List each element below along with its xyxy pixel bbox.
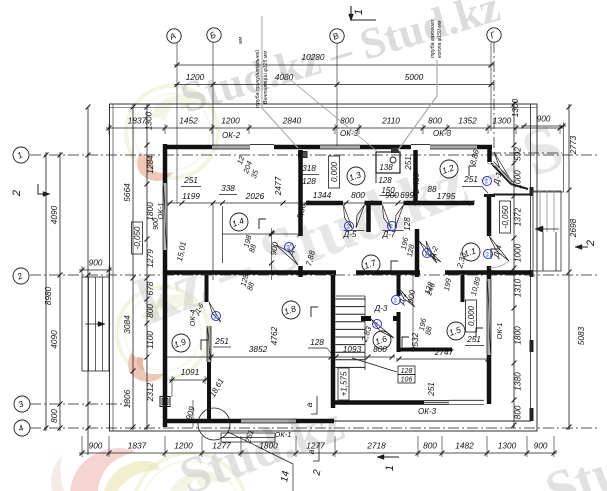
svg-text:251: 251 <box>183 175 198 185</box>
svg-text:251: 251 <box>404 156 413 170</box>
svg-text:1795: 1795 <box>437 191 456 201</box>
svg-text:ОК-1: ОК-1 <box>275 430 292 439</box>
svg-text:1100: 1100 <box>145 331 155 349</box>
svg-text:2: 2 <box>585 240 597 247</box>
svg-text:2477: 2477 <box>273 176 283 196</box>
svg-text:2026: 2026 <box>245 191 265 201</box>
svg-text:3852: 3852 <box>249 344 268 354</box>
svg-text:3084: 3084 <box>122 315 132 334</box>
svg-text:800: 800 <box>49 409 59 423</box>
svg-text:800: 800 <box>340 116 354 126</box>
svg-text:8980: 8980 <box>43 286 53 305</box>
svg-text:1277: 1277 <box>306 441 325 451</box>
svg-text:1000: 1000 <box>513 170 523 189</box>
svg-text:1344: 1344 <box>313 190 332 200</box>
svg-text:1300: 1300 <box>510 98 520 117</box>
svg-text:1800: 1800 <box>259 441 278 451</box>
svg-text:251: 251 <box>214 336 229 346</box>
svg-text:1091: 1091 <box>181 367 199 377</box>
svg-text:251: 251 <box>466 334 481 344</box>
svg-text:+1,575: +1,575 <box>339 371 348 396</box>
svg-text:251: 251 <box>463 174 478 184</box>
svg-text:900: 900 <box>534 441 548 451</box>
svg-text:ОК-1: ОК-1 <box>156 203 165 220</box>
svg-text:88: 88 <box>428 185 437 194</box>
svg-text:0,000: 0,000 <box>330 161 339 182</box>
svg-text:128: 128 <box>302 176 316 186</box>
svg-text:900: 900 <box>153 218 160 230</box>
svg-text:800: 800 <box>145 304 155 318</box>
svg-text:Д-5: Д-5 <box>343 230 357 239</box>
svg-text:1300: 1300 <box>498 441 517 451</box>
svg-text:а: а <box>304 402 314 407</box>
svg-text:труба газового: труба газового <box>430 20 436 58</box>
svg-text:4090: 4090 <box>49 330 59 349</box>
svg-text:1380: 1380 <box>513 372 523 391</box>
svg-text:2312: 2312 <box>145 382 155 402</box>
svg-text:1284: 1284 <box>145 155 155 174</box>
svg-text:128: 128 <box>401 368 413 375</box>
svg-text:251: 251 <box>426 382 436 397</box>
svg-text:1800: 1800 <box>145 202 155 221</box>
svg-text:ОК-1: ОК-1 <box>495 323 504 340</box>
svg-text:1800: 1800 <box>513 326 523 345</box>
svg-text:2718: 2718 <box>366 441 386 451</box>
svg-text:труба принудительной: труба принудительной <box>254 50 261 108</box>
svg-text:ОК-2: ОК-2 <box>222 131 241 140</box>
svg-text:1199: 1199 <box>182 191 200 201</box>
svg-text:2532: 2532 <box>410 332 420 352</box>
svg-text:5000: 5000 <box>405 72 424 82</box>
svg-text:0,000: 0,000 <box>467 305 476 326</box>
svg-text:Д-3: Д-3 <box>374 304 388 313</box>
svg-text:1837: 1837 <box>128 441 147 451</box>
svg-text:5083: 5083 <box>576 326 586 345</box>
svg-text:678: 678 <box>145 281 155 295</box>
svg-text:138: 138 <box>379 163 393 172</box>
svg-text:106: 106 <box>401 377 413 384</box>
svg-text:ОК-3: ОК-3 <box>433 129 452 138</box>
svg-text:Д-7: Д-7 <box>382 230 396 239</box>
svg-text:900: 900 <box>537 114 551 124</box>
svg-text:318: 318 <box>302 163 316 173</box>
svg-text:1452: 1452 <box>179 116 198 126</box>
svg-text:2110: 2110 <box>381 116 400 126</box>
svg-text:800: 800 <box>423 441 437 451</box>
svg-text:1806: 1806 <box>122 389 132 408</box>
svg-text:338: 338 <box>221 183 235 193</box>
svg-text:800: 800 <box>513 405 523 419</box>
svg-text:1300: 1300 <box>144 111 154 130</box>
svg-text:а: а <box>306 449 316 454</box>
svg-text:1300: 1300 <box>493 116 512 126</box>
svg-text:4090: 4090 <box>49 205 59 224</box>
svg-text:2840: 2840 <box>282 116 302 126</box>
svg-text:800: 800 <box>428 116 442 126</box>
svg-text:котла φ150 мм: котла φ150 мм <box>437 20 443 58</box>
svg-text:1482: 1482 <box>455 441 474 451</box>
svg-text:800: 800 <box>351 190 365 200</box>
svg-text:900: 900 <box>385 190 399 200</box>
svg-text:Вентиляции φ125 мм: Вентиляции φ125 мм <box>263 51 269 104</box>
svg-text:128: 128 <box>378 176 392 185</box>
svg-text:1200: 1200 <box>174 441 193 451</box>
svg-text:1000: 1000 <box>513 243 523 262</box>
svg-text:1372: 1372 <box>513 207 523 226</box>
svg-text:1: 1 <box>353 9 365 15</box>
svg-text:10280: 10280 <box>301 52 324 62</box>
svg-text:1: 1 <box>384 465 396 471</box>
svg-text:1200: 1200 <box>186 72 205 82</box>
svg-text:1310: 1310 <box>513 278 523 297</box>
svg-text:мм: мм <box>238 36 244 44</box>
svg-text:4762: 4762 <box>269 326 279 345</box>
svg-text:1352: 1352 <box>458 116 477 126</box>
svg-text:1093: 1093 <box>343 344 362 354</box>
svg-text:-0,050: -0,050 <box>501 205 510 228</box>
svg-text:2773: 2773 <box>568 135 578 155</box>
svg-text:2: 2 <box>11 190 23 197</box>
svg-text:ОК-3: ОК-3 <box>418 407 437 416</box>
svg-text:2698: 2698 <box>568 218 578 238</box>
svg-text:-0,050: -0,050 <box>133 226 142 249</box>
svg-text:900: 900 <box>89 441 103 451</box>
svg-text:592: 592 <box>513 147 523 161</box>
svg-text:2 439: 2 439 <box>411 172 421 194</box>
svg-text:128: 128 <box>310 337 324 347</box>
svg-text:1200: 1200 <box>221 116 240 126</box>
svg-text:900: 900 <box>89 258 103 268</box>
svg-text:128: 128 <box>403 217 412 231</box>
svg-text:2747: 2747 <box>434 347 454 357</box>
svg-text:1279: 1279 <box>145 249 155 268</box>
svg-text:5664: 5664 <box>122 183 132 202</box>
svg-text:1277: 1277 <box>212 441 231 451</box>
